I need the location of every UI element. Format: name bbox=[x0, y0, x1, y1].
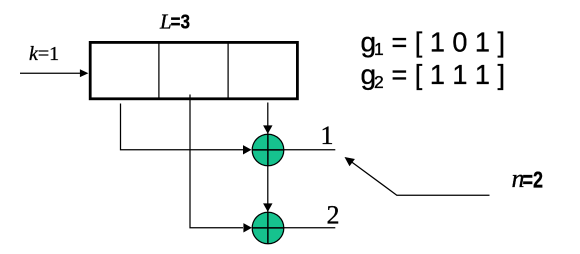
wire: X2 output line to label 2 bbox=[252, 227, 335, 229]
XOR gate X1 bbox=[252, 134, 284, 166]
svg-text:k=1: k=1 bbox=[29, 43, 59, 65]
label L=3 bbox=[159, 10, 190, 34]
svg-text:=3: =3 bbox=[171, 11, 191, 34]
wire: n=2 pointer polyline bbox=[351, 162, 490, 196]
arrowhead into register bbox=[80, 69, 89, 77]
wire: tap from cell1 down bbox=[121, 104, 244, 150]
svg-text:2: 2 bbox=[374, 72, 384, 92]
svg-text:= [ 1 0 1 ]: = [ 1 0 1 ] bbox=[392, 27, 506, 58]
svg-text:= [ 1 1 1 ]: = [ 1 1 1 ] bbox=[392, 59, 506, 90]
XOR gate X2 bbox=[252, 212, 284, 244]
svg-text:1: 1 bbox=[321, 121, 334, 150]
label g2 = [ 1 1 1 ] bbox=[361, 59, 506, 92]
wire: X1 output line to label 1 bbox=[252, 149, 335, 151]
arrowhead into X1 top bbox=[263, 125, 272, 133]
svg-text:2: 2 bbox=[327, 201, 340, 230]
arrowhead into X2 top bbox=[263, 203, 272, 212]
svg-text:=2: =2 bbox=[523, 167, 544, 193]
shift register box bbox=[90, 42, 297, 98]
label n=2 bbox=[512, 164, 544, 193]
cell divider 2 bbox=[227, 44, 229, 98]
cell divider 1 bbox=[158, 44, 160, 98]
wire: tap from cell2 down to X2 bbox=[190, 95, 243, 228]
wire: input arrow shaft bbox=[20, 72, 81, 74]
arrowhead into X1 left bbox=[243, 145, 252, 154]
wire: tap from cell3 down through X1 to X2 bbox=[267, 103, 269, 244]
svg-text:1: 1 bbox=[374, 39, 384, 59]
XOR cross X2 bbox=[252, 212, 284, 244]
XOR cross X1 bbox=[252, 134, 284, 166]
label g1 = [ 1 0 1 ] bbox=[361, 27, 506, 60]
arrowhead of n=2 pointer bbox=[345, 157, 355, 166]
arrowhead into X2 left bbox=[243, 223, 252, 232]
